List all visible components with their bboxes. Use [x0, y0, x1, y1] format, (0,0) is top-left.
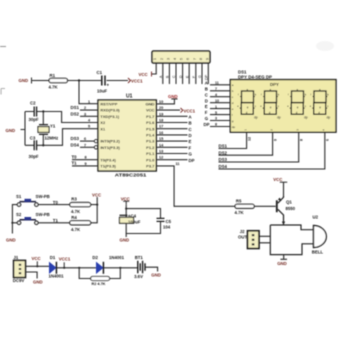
net label VCC: [32, 256, 41, 261]
svg-text:4.7K: 4.7K: [235, 210, 245, 215]
svg-text:12: 12: [248, 137, 252, 141]
wire J1 top: [26, 261, 50, 267]
svg-text:T0: T0: [72, 154, 78, 159]
svg-text:dp: dp: [254, 116, 258, 120]
svg-text:GND: GND: [120, 238, 130, 243]
wire RP pin5: [179, 63, 183, 84]
wire segment E: [156, 139, 191, 144]
svg-text:GND: GND: [151, 273, 161, 278]
svg-text:B: B: [205, 86, 208, 91]
ground: [168, 94, 178, 99]
svg-text:TXD(P3.1): TXD(P3.1): [100, 114, 120, 119]
net label VCC: [121, 196, 130, 205]
svg-text:12: 12: [159, 156, 163, 160]
svg-text:DS1: DS1: [71, 105, 80, 110]
svg-text:D1: D1: [50, 255, 56, 260]
svg-text:J1: J1: [14, 255, 19, 260]
svg-text:10uF: 10uF: [97, 89, 107, 94]
wire RP pin4: [172, 63, 176, 84]
svg-text:6: 6: [84, 137, 86, 141]
wire pin20 VCC1: [156, 109, 180, 111]
wire: [57, 262, 97, 269]
svg-text:DS2: DS2: [71, 111, 80, 116]
wire pin10 GND: [156, 99, 177, 104]
display digit 4: [310, 87, 331, 119]
svg-text:T0(P3.4): T0(P3.4): [100, 157, 116, 162]
svg-text:4.7K: 4.7K: [71, 227, 81, 232]
svg-text:7: 7: [84, 143, 86, 147]
wire T0: [38, 200, 70, 205]
wire segment DP: [156, 158, 194, 163]
ground: [151, 273, 161, 278]
svg-text:DS1: DS1: [219, 144, 228, 149]
svg-text:VCC: VCC: [139, 72, 148, 77]
wire pin11 to R5: [156, 166, 235, 206]
svg-text:U1: U1: [126, 94, 133, 100]
wire: [283, 182, 285, 196]
net label VCC: [92, 192, 101, 197]
svg-text:13: 13: [159, 150, 163, 154]
svg-text:VCC: VCC: [121, 196, 130, 201]
svg-text:C: C: [189, 127, 192, 132]
wire display C: [205, 92, 231, 97]
display digit 2: [260, 87, 281, 119]
svg-text:S1: S1: [16, 194, 22, 199]
svg-text:R5: R5: [236, 199, 242, 204]
svg-text:T1: T1: [53, 218, 59, 223]
svg-text:D2: D2: [92, 255, 98, 260]
svg-text:19: 19: [159, 112, 163, 116]
capacitor C1: [97, 70, 110, 93]
buzzer U2 BELL: [312, 214, 327, 254]
net label VCC1: [128, 78, 143, 84]
wire segment A: [156, 114, 191, 119]
svg-text:DS4: DS4: [71, 142, 80, 147]
wire R2 branch: [79, 267, 138, 279]
svg-text:F: F: [189, 145, 192, 150]
wire: [91, 204, 99, 223]
svg-text:P1.7: P1.7: [146, 114, 155, 119]
svg-text:f: f: [232, 113, 233, 117]
resistor R5: [235, 199, 276, 215]
wire J1 bottom: [26, 272, 38, 279]
wire bell loop: [270, 222, 313, 260]
svg-text:DP: DP: [205, 74, 209, 80]
svg-text:dp: dp: [232, 125, 236, 129]
svg-text:VCC1: VCC1: [59, 256, 71, 261]
resistor network RP1: [152, 51, 210, 63]
svg-text:R2 4.7K: R2 4.7K: [92, 282, 106, 286]
svg-text:GND: GND: [6, 238, 16, 243]
wire C5 branch: [125, 208, 160, 238]
svg-text:VCC: VCC: [32, 256, 41, 261]
display digit 1: [237, 87, 258, 119]
svg-text:DS3: DS3: [71, 136, 80, 141]
wire switch ground rail: [11, 205, 17, 234]
svg-text:8: 8: [215, 123, 217, 127]
wire ground rail: [21, 112, 26, 146]
connector J2: [238, 229, 270, 248]
wire: [34, 80, 50, 82]
svg-text:P1.5: P1.5: [146, 126, 155, 131]
capacitor C3: [29, 135, 39, 158]
wire RP pin9: [205, 63, 209, 84]
svg-text:E: E: [205, 104, 208, 109]
svg-text:S2: S2: [16, 212, 22, 217]
wire XTAL top: [25, 110, 98, 122]
svg-text:dp: dp: [277, 116, 281, 120]
svg-text:F: F: [205, 110, 208, 115]
wire RP pin7: [192, 63, 196, 84]
svg-text:8: 8: [85, 156, 87, 160]
wire segment B: [156, 121, 191, 126]
transistor Q1 8550: [277, 196, 296, 225]
svg-text:C3: C3: [30, 135, 36, 140]
svg-text:3: 3: [84, 112, 86, 116]
battery BT1: [134, 255, 158, 279]
svg-text:BT1: BT1: [135, 255, 144, 260]
ground: [6, 128, 16, 133]
svg-text:15: 15: [159, 137, 163, 141]
svg-text:P1.3: P1.3: [146, 139, 155, 144]
svg-text:E: E: [189, 139, 192, 144]
wire T0 pin8: [72, 154, 99, 159]
wire display G: [205, 116, 231, 121]
svg-text:7: 7: [215, 87, 217, 91]
wire DS1 pin2: [71, 105, 99, 110]
resistor R4: [70, 215, 91, 232]
svg-text:5: 5: [88, 125, 90, 129]
svg-text:R4: R4: [71, 215, 77, 220]
svg-text:10: 10: [215, 99, 219, 103]
svg-text:4: 4: [215, 93, 217, 97]
wire RP pin6: [185, 63, 189, 84]
svg-text:4.7K: 4.7K: [71, 209, 81, 214]
wire DS2 pin3: [71, 111, 99, 116]
svg-text:DS3: DS3: [219, 157, 228, 162]
capacitor C2: [29, 100, 39, 122]
svg-text:C1: C1: [97, 70, 103, 75]
ground: [120, 238, 130, 243]
wire DS2 select: [219, 132, 278, 155]
wire RP pin1 VCC: [152, 63, 157, 77]
wire display B: [205, 86, 231, 91]
svg-text:1: 1: [215, 105, 217, 109]
svg-text:P1.6: P1.6: [146, 120, 155, 125]
svg-text:GND: GND: [6, 128, 16, 133]
svg-text:A: A: [205, 80, 208, 85]
svg-text:VCC: VCC: [273, 177, 282, 182]
svg-text:VCC: VCC: [92, 192, 101, 197]
svg-text:R1: R1: [50, 73, 56, 78]
svg-text:X2: X2: [100, 120, 106, 125]
svg-text:Y1: Y1: [50, 124, 56, 129]
svg-text:16: 16: [159, 131, 163, 135]
svg-text:T1: T1: [72, 161, 78, 166]
svg-text:3.6V: 3.6V: [134, 274, 143, 279]
wire DS3 pin6: [71, 136, 98, 143]
wire segment D: [156, 133, 191, 138]
svg-text:BELL: BELL: [312, 250, 324, 255]
wire segment G: [156, 152, 192, 157]
ground: [277, 261, 287, 266]
wire DS3 select: [219, 132, 304, 162]
svg-text:INT0(P3.2): INT0(P3.2): [100, 139, 120, 144]
svg-text:9: 9: [85, 162, 87, 166]
net label VCC: [139, 72, 148, 77]
svg-text:100uF: 100uF: [128, 220, 141, 225]
svg-text:104: 104: [163, 224, 171, 229]
svg-text:OUT: OUT: [238, 234, 247, 239]
wire: [68, 79, 102, 81]
svg-text:GND: GND: [19, 78, 29, 83]
wire display F: [205, 110, 231, 115]
wire RP pin3: [166, 63, 170, 84]
wire display A: [205, 80, 231, 85]
svg-text:AT89C2051: AT89C2051: [115, 173, 147, 178]
svg-text:dp: dp: [304, 116, 308, 120]
svg-text:SW-PB: SW-PB: [36, 194, 50, 199]
resistor R3: [70, 197, 91, 214]
svg-text:DS2: DS2: [219, 150, 228, 155]
svg-text:1N4001: 1N4001: [109, 255, 125, 260]
svg-text:dp: dp: [327, 116, 331, 120]
net label VCC1: [181, 108, 196, 114]
svg-text:DPY D4-SEG DP: DPY D4-SEG DP: [238, 74, 272, 79]
switch S2: [16, 212, 50, 224]
svg-text:P3.7: P3.7: [146, 164, 155, 169]
svg-text:U2: U2: [313, 214, 319, 219]
net label VCC1: [59, 256, 71, 261]
svg-text:RXD(P3.0): RXD(P3.0): [100, 108, 120, 113]
wire display D: [205, 98, 231, 103]
svg-text:2: 2: [84, 106, 86, 110]
svg-text:DS4: DS4: [219, 164, 228, 169]
svg-text:DP: DP: [189, 158, 195, 163]
wire DS4 select: [219, 132, 330, 169]
svg-text:4.7K: 4.7K: [49, 85, 59, 90]
svg-text:5: 5: [215, 111, 217, 115]
svg-text:C2: C2: [30, 100, 36, 105]
wire: [91, 197, 98, 205]
svg-text:P1.1: P1.1: [146, 151, 155, 156]
svg-text:GND: GND: [168, 94, 178, 99]
net label VCC: [273, 177, 287, 182]
ground: [33, 279, 43, 284]
display DS1: [230, 70, 336, 133]
wire display E: [205, 104, 231, 109]
svg-text:INT1(P3.3): INT1(P3.3): [100, 145, 120, 150]
svg-text:GND: GND: [146, 102, 155, 107]
wire segment F: [156, 145, 191, 150]
svg-text:30pF: 30pF: [29, 154, 39, 159]
svg-text:R3: R3: [71, 197, 77, 202]
svg-text:B: B: [189, 121, 192, 126]
svg-text:1: 1: [88, 100, 90, 104]
IC U1 AT89C2051: [84, 94, 180, 178]
svg-text:P1.2: P1.2: [146, 145, 155, 150]
svg-text:P1.0: P1.0: [146, 157, 155, 162]
svg-text:GND: GND: [277, 261, 287, 266]
svg-text:T1(P3.5): T1(P3.5): [100, 164, 116, 169]
resistor R2: [91, 277, 110, 287]
wire RP pin8: [198, 63, 202, 84]
capacitor C4: [120, 205, 141, 234]
svg-text:3: 3: [215, 117, 217, 121]
svg-text:VCC1: VCC1: [184, 109, 196, 114]
svg-text:A: A: [189, 114, 192, 119]
svg-text:8: 8: [300, 139, 304, 141]
display digit 3: [287, 87, 308, 119]
ground: [19, 78, 34, 84]
svg-text:G: G: [198, 75, 202, 78]
switch S1: [16, 194, 50, 206]
wire segment C: [156, 127, 191, 132]
svg-text:9: 9: [274, 139, 278, 141]
svg-text:D: D: [189, 133, 192, 138]
svg-text:11: 11: [215, 81, 219, 85]
resistor R1: [49, 73, 68, 89]
wire DS4 pin7: [71, 142, 98, 149]
capacitor C5: [157, 218, 172, 229]
svg-text:DPY: DPY: [270, 82, 279, 87]
svg-text:18: 18: [159, 119, 163, 123]
svg-text:GND: GND: [33, 279, 43, 284]
svg-text:RST/VPP: RST/VPP: [100, 102, 117, 107]
svg-text:VCC1: VCC1: [131, 79, 143, 84]
svg-text:12MHz: 12MHz: [45, 136, 59, 141]
svg-text:1N4001: 1N4001: [49, 273, 65, 278]
wire T1 pin9: [72, 161, 99, 166]
svg-text:C: C: [205, 92, 208, 97]
svg-text:VCC: VCC: [146, 108, 155, 113]
svg-text:T0: T0: [53, 200, 59, 205]
svg-text:Q1: Q1: [286, 200, 292, 205]
ground: [6, 238, 16, 243]
svg-text:17: 17: [159, 125, 163, 129]
svg-text:8550: 8550: [286, 206, 296, 211]
svg-text:20: 20: [159, 106, 163, 110]
svg-text:10: 10: [159, 100, 163, 104]
wire: [107, 80, 129, 82]
svg-text:DC9V: DC9V: [13, 278, 25, 283]
wire RST: [79, 81, 98, 104]
svg-text:C: C: [172, 75, 176, 78]
svg-text:D: D: [179, 75, 183, 78]
svg-text:6: 6: [326, 139, 330, 141]
wire DS1 select: [219, 132, 252, 148]
wire XTAL bottom: [25, 129, 98, 147]
svg-text:P1.4: P1.4: [146, 133, 155, 138]
diode D1: [49, 255, 65, 279]
wire display DP: [204, 122, 231, 127]
svg-text:C5: C5: [166, 219, 172, 224]
svg-text:DP: DP: [204, 122, 210, 127]
diode D2: [92, 255, 124, 274]
svg-text:11: 11: [176, 162, 180, 166]
svg-text:D: D: [205, 98, 208, 103]
wire T1: [38, 218, 70, 223]
connector J1: [13, 255, 26, 283]
svg-text:SW-PB: SW-PB: [36, 212, 50, 217]
wire RP pin2: [159, 63, 163, 84]
svg-text:30pF: 30pF: [29, 117, 39, 122]
crystal Y1: [38, 112, 58, 146]
svg-text:X1: X1: [100, 126, 106, 131]
